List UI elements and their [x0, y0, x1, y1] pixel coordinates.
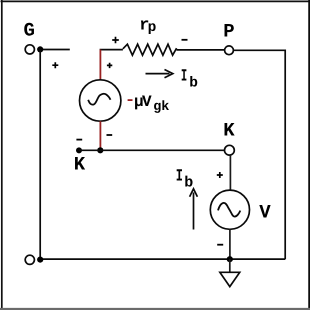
wire: bottom rail [40, 258, 285, 260]
terminal P [225, 46, 234, 55]
node: G junction dot [37, 46, 43, 52]
wire: resistor to P terminal [177, 49, 225, 51]
svg-text:gk: gk [153, 100, 169, 115]
sine symbol in dependent source [88, 94, 110, 105]
wire: source V to bottom rail [229, 229, 231, 259]
wire: G junction stub (open grid lead) [40, 49, 70, 51]
sine symbol in source V [218, 203, 240, 217]
terminal K (open circle) [225, 145, 235, 155]
terminal G [25, 45, 34, 54]
resistor rp zigzag [123, 44, 177, 55]
svg-text:G: G [24, 20, 35, 42]
ground symbol triangle [220, 272, 240, 286]
wire: left rail (G down to bottom-left) [39, 49, 41, 259]
wire: red drop from top rail to dependent source [99, 50, 101, 81]
dependent source -uVgk circle [80, 80, 121, 121]
svg-text:V: V [142, 93, 152, 111]
source V circle [210, 190, 249, 229]
wire: red from dependent source down to K rail [99, 121, 101, 150]
svg-text:b: b [189, 75, 198, 91]
plus sign left of resistor [112, 37, 119, 44]
svg-text:K: K [74, 154, 86, 176]
node: bottom-left junction dot [37, 257, 43, 263]
svg-text:b: b [184, 174, 193, 191]
terminal bottom-left [25, 255, 34, 264]
minus sign left of K dot [76, 139, 82, 141]
minus sign right of red wire [107, 134, 113, 136]
wire: K rail to K terminal [79, 149, 225, 151]
node: K junction dot [97, 147, 103, 153]
plus sign near G [52, 62, 58, 68]
minus sign right of resistor [182, 39, 188, 41]
terminal K (filled dot) [76, 147, 82, 153]
svg-text:I: I [181, 68, 187, 87]
svg-text:p: p [148, 20, 157, 36]
svg-text:P: P [223, 21, 234, 43]
current arrow Ib (upward) [193, 193, 195, 230]
minus sign below source V [217, 244, 223, 246]
svg-text:K: K [223, 120, 235, 142]
svg-text:I: I [176, 168, 183, 187]
plus sign above source V [217, 172, 223, 178]
plus sign above dependent source [107, 63, 112, 68]
wire: P to top-right corner and right rail [233, 50, 285, 259]
node: ground junction dot [227, 256, 233, 262]
svg-text:V: V [259, 202, 271, 224]
ground stub [229, 259, 231, 272]
label -uVgk [128, 99, 133, 101]
current arrow Ib (rightward, under resistor) [146, 73, 170, 75]
wire: top rail corner to resistor [100, 49, 123, 51]
wire: K terminal down to source V [229, 155, 231, 190]
